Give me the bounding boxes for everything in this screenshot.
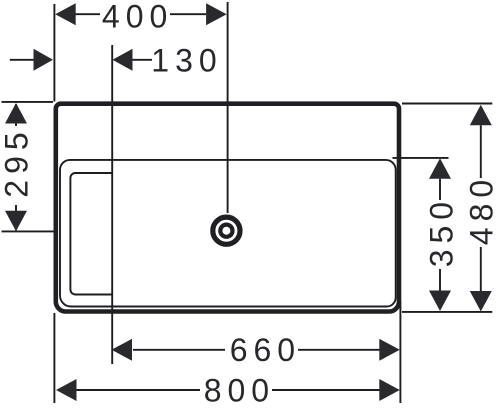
dimension 480 line top segment bbox=[480, 125, 482, 178]
drain inner ring bbox=[220, 225, 232, 237]
extension line 295 bottom horizontal bbox=[2, 230, 55, 232]
dimension 350 label bbox=[424, 196, 460, 267]
dimension 800 line left segment bbox=[77, 389, 201, 391]
extension line 480 top horizontal bbox=[402, 103, 492, 105]
svg-text:400: 400 bbox=[102, 0, 173, 34]
dimension 350 line bottom segment bbox=[439, 269, 441, 291]
dimension 480 line bottom segment bbox=[480, 247, 482, 291]
svg-text:295: 295 bbox=[0, 126, 35, 197]
dimension 400 left arrow bbox=[55, 3, 75, 25]
shelf outline bbox=[70, 173, 112, 295]
dimension 480 bottom arrow bbox=[470, 291, 492, 312]
dimension 130 line to label bbox=[133, 59, 153, 61]
svg-text:350: 350 bbox=[424, 196, 460, 267]
dimension 800 right arrow bbox=[379, 379, 400, 401]
extension line right vertical bottom (x=400.4) bbox=[399, 301, 401, 403]
dimension 660 right arrow bbox=[379, 339, 400, 361]
dimension 800 line right segment bbox=[272, 389, 380, 391]
dimension 400 line right segment bbox=[170, 13, 206, 15]
extension line left vertical top (x=54.4) bbox=[53, 4, 55, 102]
extension line left vertical bottom (for 800) bbox=[53, 313, 55, 403]
extension line right bottom horizontal bbox=[402, 311, 492, 313]
dimension 350 line top segment bbox=[439, 179, 441, 200]
drain outer ring bbox=[213, 217, 240, 244]
svg-text:480: 480 bbox=[464, 174, 500, 245]
dimension 350 bottom arrow bbox=[429, 291, 451, 312]
dimension 400 line left segment bbox=[57, 13, 100, 15]
dimension 130 tail line left bbox=[10, 59, 34, 61]
dimension 350 top arrow bbox=[429, 158, 451, 179]
dimension 480 top arrow bbox=[470, 105, 492, 126]
dimension 400 right arrow bbox=[206, 3, 227, 25]
dimension 130 left arrow bbox=[34, 49, 54, 71]
washbasin outer outline bbox=[56, 104, 399, 312]
dimension 660 left arrow bbox=[112, 339, 133, 361]
svg-text:660: 660 bbox=[230, 332, 301, 368]
svg-text:800: 800 bbox=[204, 373, 275, 409]
dimension 295 line bottom segment bbox=[15, 205, 17, 230]
extension line 130/660 vertical (x=112.2) bbox=[111, 45, 113, 364]
dimension 295 label bbox=[0, 126, 35, 197]
dimension 130 right arrow bbox=[113, 49, 133, 71]
extension line 295 top horizontal bbox=[2, 101, 54, 103]
dimension 660 line right segment bbox=[298, 349, 380, 351]
extension line 350 top horizontal bbox=[393, 157, 449, 159]
dimension 295 line top segment bbox=[15, 104, 17, 126]
extension line drain center vertical (x=227.6) bbox=[227, 2, 229, 213]
dimension 800 left arrow bbox=[56, 379, 77, 401]
dimension 480 label bbox=[464, 174, 500, 245]
dimension 660 line left segment bbox=[133, 349, 225, 351]
dimension 295 top arrow bbox=[5, 103, 27, 124]
dimension 295 bottom arrow bbox=[5, 211, 27, 232]
svg-text:130: 130 bbox=[151, 42, 222, 78]
basin inner outline bbox=[60, 160, 396, 307]
